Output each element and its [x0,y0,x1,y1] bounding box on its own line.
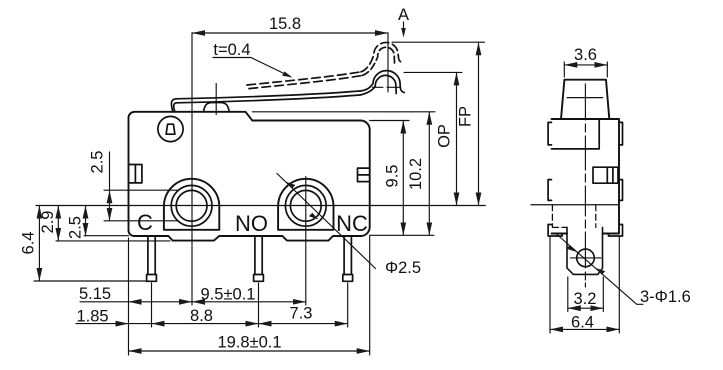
svg-text:FP: FP [457,106,475,127]
ext line lever tip vertical [387,33,389,92]
terminal C [147,236,157,281]
Φ2.5 leader through hole2 [277,174,376,269]
right edge tab [358,168,370,182]
side dim 6.4 line [550,328,619,330]
plunger centerline stub [215,84,217,115]
svg-text:6.4: 6.4 [20,232,38,255]
side ext line 3.6 right [606,62,608,77]
lever tip hook solid inner [360,75,396,95]
lever arm solid bottom edge [177,95,361,103]
svg-text:3-Φ1.6: 3-Φ1.6 [640,288,691,306]
dim 10.2 vertical [428,112,430,236]
side dim 3.2 line [568,307,604,309]
dim 5.15 leader tail [80,301,129,303]
dim 2.5 top-left leader [109,152,111,190]
3-Φ1.6 second arrow upper-left [566,245,576,252]
side left nub top [548,122,551,144]
lug hole cross horizontal [571,257,602,259]
svg-text:OP: OP [435,124,453,148]
svg-text:9.5: 9.5 [383,165,401,188]
dim 7.3 line [259,323,348,325]
terminal NC [343,236,353,281]
svg-text:9.5±0.1: 9.5±0.1 [201,286,256,304]
side right nub bottom [609,225,623,237]
side ext body right [618,237,620,333]
terminal NO [254,236,264,281]
t=0.4 leader [213,58,283,74]
dim 2.5 top-left vertical [109,190,111,221]
dim 15.8 line [192,32,388,34]
svg-text:1.85: 1.85 [76,308,108,326]
side ext body left [549,237,551,333]
lever arm solid top edge [176,91,360,99]
side slot detail [593,167,618,183]
svg-text:10.2: 10.2 [407,158,425,190]
side left nub middle [548,180,551,201]
plunger dome on top edge [204,103,230,112]
ext line body left vertical [128,238,130,355]
side ext line 3.6 left [563,62,565,77]
svg-text:2.9: 2.9 [39,211,57,234]
lever arm dashed top (free position) [247,72,361,85]
Φ2.5 leader arrow upper-left [286,182,296,189]
dim 5.15 line [129,301,193,303]
svg-text:5.15: 5.15 [79,285,111,303]
switch body outline (front view) [129,112,370,241]
svg-text:15.8: 15.8 [269,15,301,33]
svg-text:6.4: 6.4 [571,314,594,332]
svg-text:2.5: 2.5 [66,216,84,239]
lever hook dashed outer (free position) [361,42,402,71]
dim 1.85 to 8.8 connector [129,323,152,325]
keystone mark inside circle [166,124,175,134]
side hidden recess dashed [552,205,595,228]
ext line notch bottom left [56,240,170,242]
svg-text:2.5: 2.5 [89,151,107,174]
svg-text:7.3: 7.3 [290,305,313,323]
dim 9.5 vertical [402,121,404,236]
ext line bottom right (body bottom) [370,234,434,236]
side view plunger [561,80,609,119]
dim 19.8±0.1 line [129,350,370,352]
ext line hole top tangent left [104,189,178,191]
dim 8.8 line [152,323,259,325]
ext line body bottom left short [84,235,129,237]
side right nub middle [619,180,623,201]
ext line 9.5 top (body step) [370,120,409,122]
ext line hole center horizontal datum [36,205,485,207]
A pointer arrow [403,22,405,31]
ext line OP top [404,71,462,73]
ext line 10.2 top (body top) [252,111,435,113]
dim 2.5 second vertical [85,206,87,237]
svg-text:NC: NC [336,211,368,236]
lug hole circle [577,249,595,267]
ext line hole2 center vertical [305,177,307,306]
hole 1 inner circle [176,190,207,221]
left edge tab [129,165,142,183]
side right nub top [619,122,623,144]
hole 2 middle circle [285,185,326,226]
3-Φ1.6 leader [557,235,643,305]
dim 2.9 vertical [57,206,59,241]
side left nub bottom [548,225,562,237]
svg-text:3.2: 3.2 [574,290,597,308]
lever hook dashed inner (free position) [363,47,395,75]
svg-text:C: C [137,210,153,235]
side vertical centerline [584,84,586,287]
svg-text:3.6: 3.6 [574,46,597,64]
plunger cross mark [567,97,602,99]
side dim 3.6 line [564,64,607,66]
ext line T1 center vertical [151,283,153,327]
ext line terminal bottom left [34,280,148,282]
dim 1.85 line [76,323,129,325]
lever arm dashed bottom (free position) [249,75,363,88]
side step line [531,204,619,206]
svg-text:NO: NO [235,211,268,236]
lever left tip curl [171,99,176,112]
lever tip hook solid outer [360,71,404,93]
hole 1 middle circle [171,185,212,226]
side ext lug right [602,277,604,312]
svg-text:Φ2.5: Φ2.5 [385,259,421,277]
ext line T2 center vertical [258,283,260,327]
dim FP vertical [478,42,480,205]
hole boss 2 [278,179,333,230]
side terminal lug [567,227,603,274]
ext line hole1 center vertical [191,33,193,305]
dim 6.4 vertical [38,206,40,282]
ext line hole bottom tangent left [104,220,178,222]
svg-text:8.8: 8.8 [190,307,213,325]
mould circle detail top-left [158,116,183,141]
side ext lug left [567,277,569,312]
hole boss 1 [164,179,219,230]
ext line FP top [392,41,485,43]
svg-text:19.8±0.1: 19.8±0.1 [217,334,281,352]
ext line body right vertical [369,236,371,355]
ext line T3 center vertical [347,283,349,327]
svg-text:A: A [398,6,409,24]
dim 9.5±0.1 line [192,301,306,303]
svg-text:t=0.4: t=0.4 [213,41,250,59]
hook center dash mark [373,86,401,88]
side top-left panel [552,119,600,149]
hole 2 inner circle [290,190,321,221]
side view body [552,119,620,234]
dim OP vertical [456,72,458,205]
